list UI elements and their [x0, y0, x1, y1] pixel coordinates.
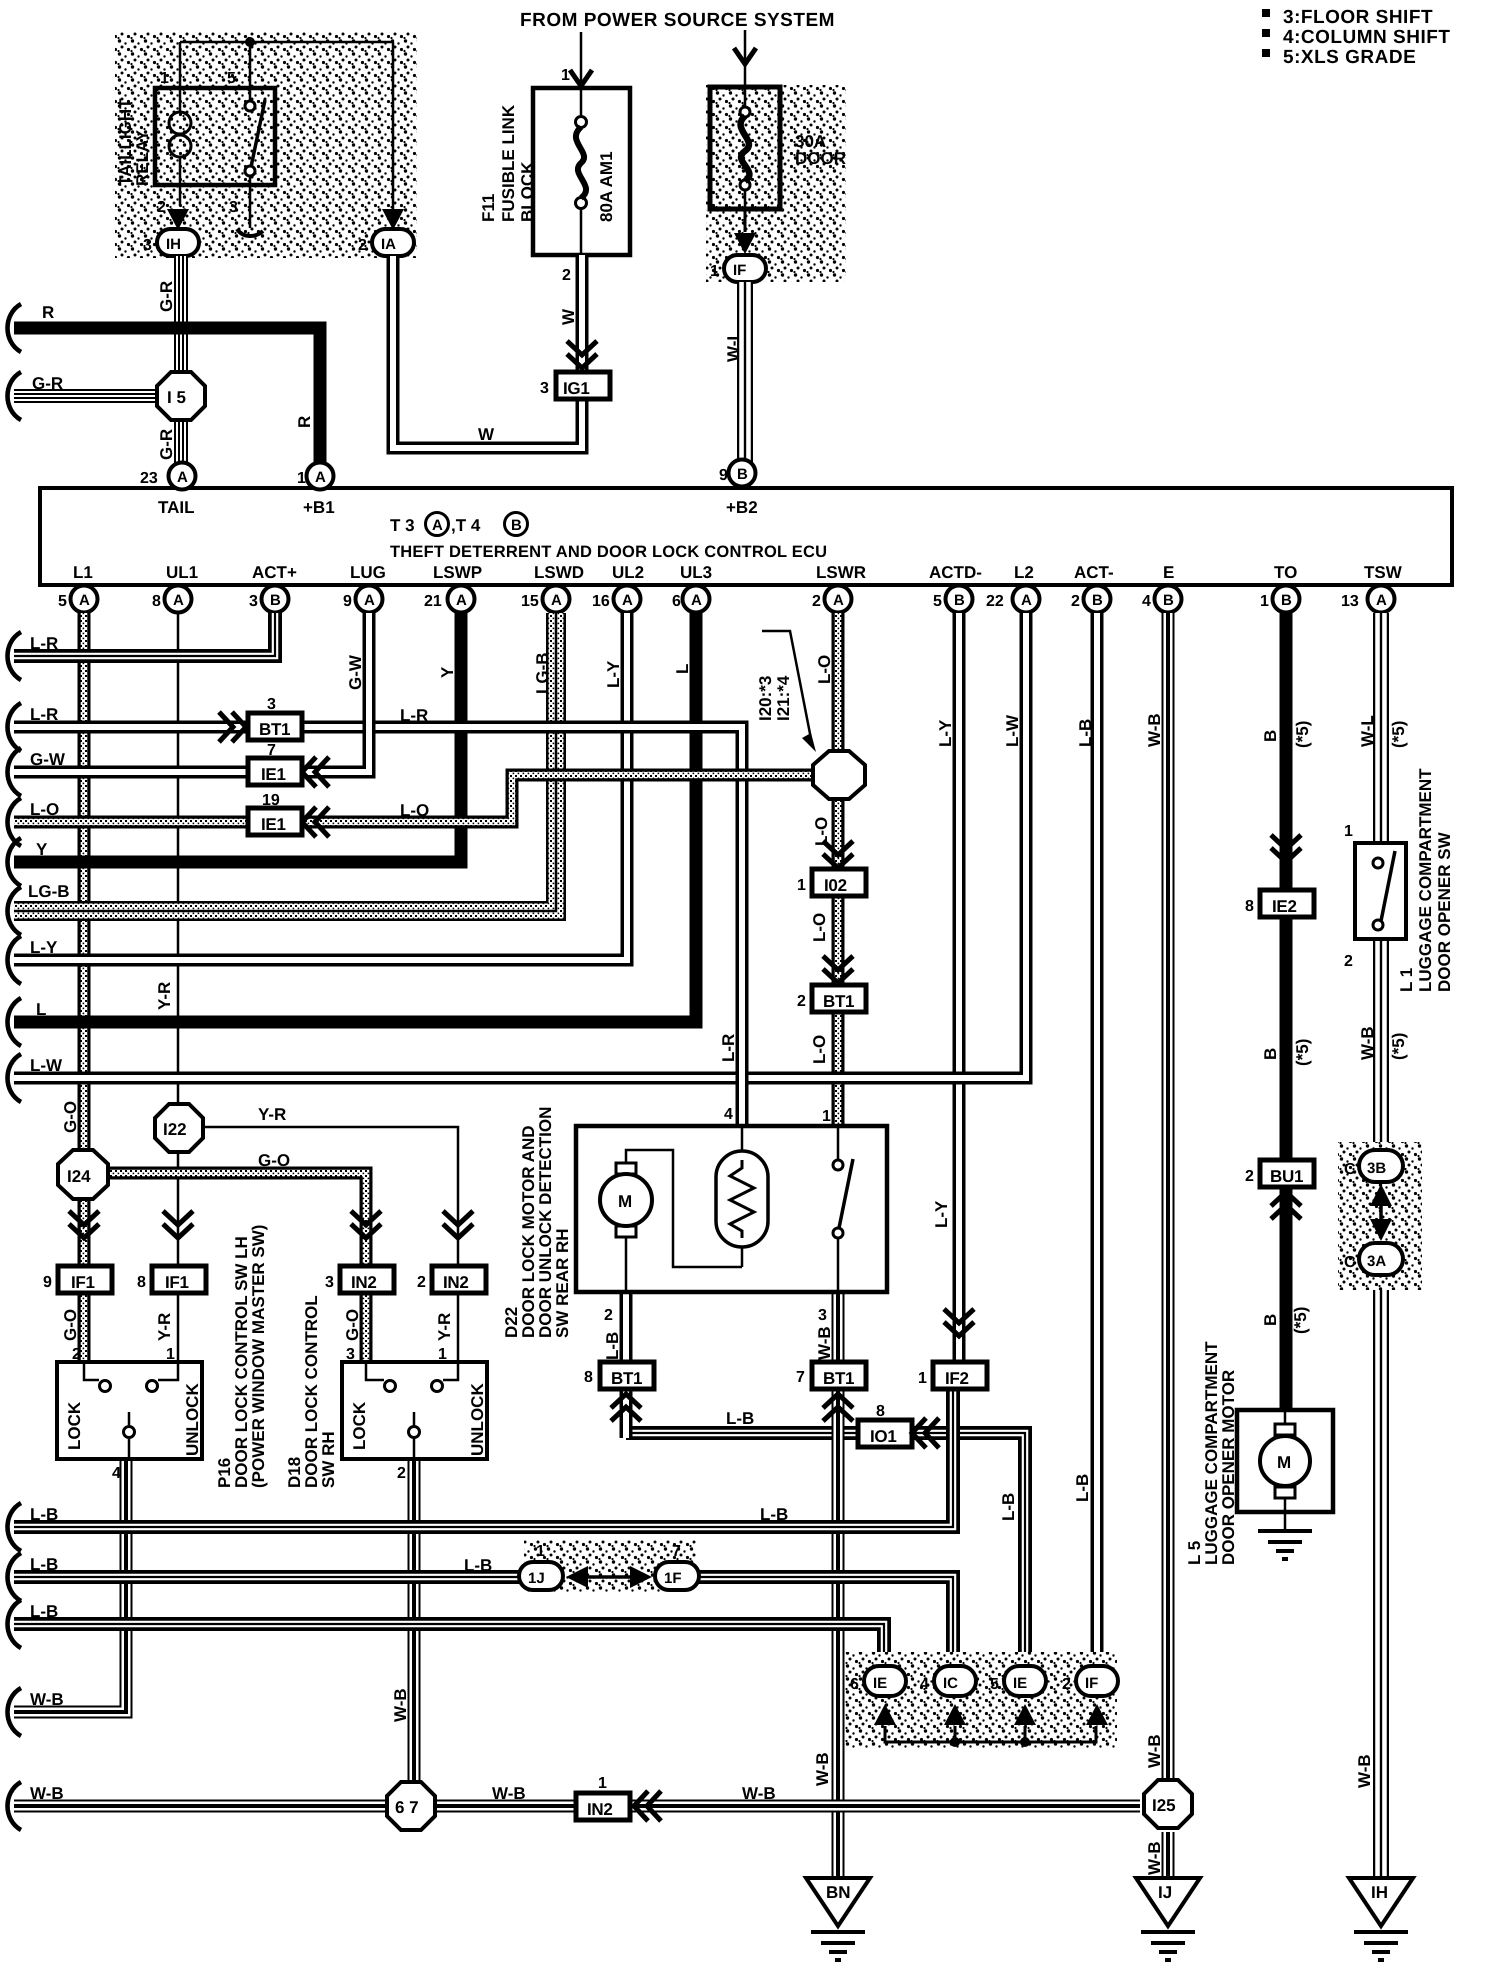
svg-text:L-B: L-B — [1073, 1474, 1092, 1502]
wire E W-B down to I25 — [1167, 613, 1169, 1780]
svg-text:W-L: W-L — [1358, 715, 1377, 747]
svg-text:3: 3 — [267, 696, 276, 713]
svg-text:M: M — [1277, 1453, 1291, 1472]
svg-text:TAIL: TAIL — [158, 498, 195, 517]
svg-text:ACTD-: ACTD- — [929, 563, 982, 582]
svg-text:7: 7 — [796, 1369, 805, 1386]
svg-text:4: 4 — [724, 1106, 733, 1123]
wire ACT- L-B down to 2 IF — [1096, 613, 1098, 1666]
svg-text:LUGGAGE COMPARTMENT: LUGGAGE COMPARTMENT — [1416, 768, 1435, 992]
wire UL2 L-Y corner to stub — [14, 613, 627, 960]
svg-text:L: L — [673, 664, 692, 674]
svg-text:G-R: G-R — [157, 429, 176, 460]
svg-text:B: B — [1261, 1314, 1280, 1326]
svg-text:IN2: IN2 — [351, 1273, 377, 1292]
svg-text:LSWR: LSWR — [816, 563, 866, 582]
svg-text:SW REAR RH: SW REAR RH — [553, 1228, 572, 1338]
svg-text:ACT+: ACT+ — [252, 563, 297, 582]
svg-text:Y-R: Y-R — [155, 1313, 174, 1341]
svg-text:IF: IF — [1085, 1675, 1098, 1692]
svg-text:1: 1 — [160, 70, 169, 87]
svg-text:L-R: L-R — [400, 706, 428, 725]
svg-text:7: 7 — [672, 1543, 681, 1560]
svg-text:I24: I24 — [67, 1167, 91, 1186]
svg-text:4: 4 — [1142, 593, 1151, 610]
junction octagon I22 — [155, 1104, 203, 1152]
relay switch contacts — [245, 101, 255, 111]
svg-text:3: 3 — [249, 593, 258, 610]
svg-text:BLOCK: BLOCK — [518, 161, 537, 222]
svg-text:80A AM1: 80A AM1 — [597, 151, 616, 222]
svg-text:L-O: L-O — [810, 1035, 829, 1064]
svg-text:W-B: W-B — [813, 1752, 832, 1786]
wire L2 L-W corner to stub — [14, 613, 1026, 1078]
svg-text:1: 1 — [710, 263, 719, 280]
svg-text:THEFT DETERRENT AND DOOR LOCK: THEFT DETERRENT AND DOOR LOCK CONTROL EC… — [390, 543, 827, 561]
svg-text:1: 1 — [918, 1370, 927, 1387]
svg-text:4: 4 — [920, 1676, 929, 1693]
switch P16 door lock control sw LH box — [57, 1362, 202, 1459]
svg-text:13: 13 — [1341, 593, 1359, 610]
svg-text:A: A — [1376, 592, 1387, 609]
svg-text:8: 8 — [137, 1274, 146, 1291]
svg-text:L-O: L-O — [30, 800, 59, 819]
fusible link block F11 box — [533, 88, 630, 255]
svg-text:L-B: L-B — [30, 1555, 58, 1574]
wire I22 right Y-R to IN2 — [202, 1127, 458, 1362]
wire relay pin3 lead — [249, 176, 252, 228]
svg-text:LSWD: LSWD — [534, 563, 584, 582]
bottom pin circles — [58, 586, 1395, 613]
luggage compartment door opener switch L1 — [1355, 843, 1406, 939]
wire relay coil leads — [179, 88, 182, 206]
svg-text:L-B: L-B — [726, 1409, 754, 1428]
svg-text:1: 1 — [797, 877, 806, 894]
wire TO B thick down to motor — [1280, 613, 1293, 1410]
svg-text:L-Y: L-Y — [936, 719, 955, 747]
svg-text:BT1: BT1 — [823, 1369, 854, 1388]
svg-text:1: 1 — [1344, 823, 1353, 840]
wire luggage switch to 3B to IH W-B — [1380, 939, 1382, 1878]
svg-text:2: 2 — [604, 1307, 613, 1324]
svg-text:B: B — [737, 466, 748, 483]
svg-text:L-Y: L-Y — [30, 938, 58, 957]
svg-text:A: A — [432, 517, 443, 534]
D22 unlock switch — [837, 1126, 840, 1292]
svg-text:IF1: IF1 — [71, 1273, 95, 1292]
svg-text:2: 2 — [358, 237, 367, 254]
svg-text:+B1: +B1 — [303, 498, 335, 517]
svg-text:UNLOCK: UNLOCK — [183, 1383, 202, 1456]
connector 4 IC — [934, 1666, 976, 1696]
wire D22 pin3 to 7BT1 to BN ground W-B — [837, 1292, 839, 1878]
connector 8 BT1 — [600, 1362, 654, 1389]
connector BT1 3 inline on L-R — [248, 713, 302, 740]
svg-text:Y-R: Y-R — [155, 982, 174, 1010]
svg-text:L: L — [36, 1000, 46, 1019]
svg-text:L-B: L-B — [999, 1493, 1018, 1521]
arrows between 3B and 3A — [1379, 1198, 1383, 1230]
svg-text:I 5: I 5 — [167, 388, 186, 407]
svg-text:W-B: W-B — [742, 1784, 776, 1803]
ground below luggage motor — [1258, 1531, 1312, 1559]
svg-text:4: 4 — [112, 1465, 121, 1482]
svg-text:(*5): (*5) — [1293, 1039, 1312, 1066]
svg-text:L2: L2 — [1014, 563, 1034, 582]
arrow into IH — [167, 209, 189, 230]
svg-text:21: 21 — [424, 593, 442, 610]
arrow chevron into BT1 2 — [823, 956, 853, 983]
wire W fuse to IG1 — [581, 255, 583, 372]
svg-text:TSW: TSW — [1364, 563, 1403, 582]
svg-text:I25: I25 — [1152, 1796, 1176, 1815]
svg-text:B: B — [954, 592, 965, 609]
connector 1 IF2 — [933, 1362, 987, 1389]
svg-text:W-B: W-B — [1145, 1841, 1164, 1875]
svg-text:SW RH: SW RH — [319, 1431, 338, 1488]
svg-text:C: C — [1344, 1254, 1356, 1271]
ground connector IJ — [1136, 1878, 1200, 1926]
svg-text:LOCK: LOCK — [350, 1401, 369, 1450]
wire G-R from IH through I5 to 23A — [180, 256, 182, 463]
svg-text:LUG: LUG — [350, 563, 386, 582]
svg-text:9: 9 — [43, 1274, 52, 1291]
svg-text:C: C — [1344, 1161, 1356, 1178]
svg-text:L-B: L-B — [464, 1556, 492, 1575]
svg-text:3B: 3B — [1367, 1160, 1386, 1177]
svg-text:I21:*4: I21:*4 — [774, 675, 793, 721]
ECU box theft deterrent and door lock control ECU — [40, 488, 1452, 585]
svg-text:TO: TO — [1274, 563, 1297, 582]
svg-text:W-B: W-B — [492, 1784, 526, 1803]
connector 1 IF — [724, 255, 766, 282]
arrow chevron into IE2 — [1271, 835, 1301, 862]
svg-text:UL2: UL2 — [612, 563, 644, 582]
connector C 3B — [1359, 1150, 1403, 1182]
svg-text:R: R — [42, 303, 54, 322]
svg-text:A: A — [177, 469, 188, 486]
wire LSWP Y thick corner to stub — [14, 613, 461, 862]
svg-text:22: 22 — [986, 593, 1004, 610]
svg-text:A: A — [691, 592, 702, 609]
relay pin numbers — [157, 70, 238, 216]
svg-text:G-W: G-W — [30, 750, 66, 769]
svg-text:G-O: G-O — [61, 1309, 80, 1341]
svg-text:6: 6 — [672, 593, 681, 610]
svg-text:W-B: W-B — [30, 1690, 64, 1709]
shaded area ground connector strip — [845, 1652, 1117, 1748]
wire to IF — [744, 209, 747, 232]
svg-text:Y-R: Y-R — [258, 1105, 286, 1124]
wire G-W run from stub to IE1 and LUG — [14, 613, 369, 772]
svg-text:1: 1 — [561, 67, 570, 84]
svg-text:2: 2 — [797, 993, 806, 1010]
svg-text:IE: IE — [1013, 1675, 1027, 1692]
svg-text:L-R: L-R — [30, 634, 58, 653]
svg-text:3: 3 — [540, 380, 549, 397]
wire G-R stub from left — [14, 395, 157, 397]
node junction top — [245, 37, 255, 47]
svg-text:L-B: L-B — [1076, 719, 1095, 747]
svg-text:T 3: T 3 — [390, 516, 415, 535]
switch D18 door lock control sw RH box — [342, 1362, 487, 1459]
svg-text:L-B: L-B — [30, 1602, 58, 1621]
arrow chevron into IF1 9 — [69, 1211, 99, 1238]
svg-text:A: A — [79, 592, 90, 609]
wire 8BT1 to IO1 to 5IE L-B — [626, 1433, 1025, 1668]
relay box — [155, 88, 275, 185]
svg-text:2: 2 — [812, 593, 821, 610]
svg-text:1: 1 — [536, 1543, 545, 1560]
svg-text:9: 9 — [719, 467, 728, 484]
wire R thick stub to 1A — [14, 328, 320, 463]
svg-text:9: 9 — [343, 593, 352, 610]
wire L1 G-O down to I24 — [83, 613, 85, 1150]
svg-text:B: B — [1281, 592, 1292, 609]
svg-text:IF: IF — [733, 262, 746, 279]
svg-text:L-B: L-B — [30, 1505, 58, 1524]
svg-text:,T 4: ,T 4 — [451, 516, 481, 535]
svg-text:5: 5 — [990, 1676, 999, 1693]
svg-text:IH: IH — [1371, 1883, 1388, 1902]
connector 2 BT1 — [812, 985, 866, 1012]
connector IE1 7 inline — [248, 758, 302, 785]
arrow chevron into IN2 3 — [351, 1211, 381, 1238]
svg-text:L-R: L-R — [30, 705, 58, 724]
svg-text:A: A — [456, 592, 467, 609]
connector 2 IA — [372, 229, 414, 256]
svg-text:G-W: G-W — [346, 654, 365, 690]
svg-text:LG-B: LG-B — [28, 882, 70, 901]
svg-text:B: B — [1092, 592, 1103, 609]
svg-text:DOOR OPENER SW: DOOR OPENER SW — [1435, 831, 1454, 992]
connector 9 IF1 — [58, 1266, 112, 1293]
wire LSWR L-O chain down to D22 pin1 — [837, 613, 839, 1126]
svg-text:Y: Y — [438, 666, 457, 678]
svg-text:BU1: BU1 — [1270, 1167, 1303, 1186]
svg-text:IJ: IJ — [1158, 1883, 1172, 1902]
svg-text:I20:*3: I20:*3 — [756, 676, 775, 721]
svg-text:L-O: L-O — [810, 913, 829, 942]
wire TSW W-L down to luggage switch — [1380, 613, 1382, 843]
arrow between 1J and 1F — [570, 1575, 648, 1579]
fusible link 80A AM1 — [580, 100, 583, 255]
arrow up into 2 IF — [1086, 1704, 1108, 1725]
svg-text:A: A — [833, 592, 844, 609]
svg-text:G-R: G-R — [32, 374, 63, 393]
svg-text:E: E — [1163, 563, 1174, 582]
svg-text:2: 2 — [562, 267, 571, 284]
svg-text:FROM POWER SOURCE SYSTEM: FROM POWER SOURCE SYSTEM — [520, 10, 835, 31]
ground connector BN — [806, 1878, 870, 1926]
svg-text:5: 5 — [58, 593, 67, 610]
junction octagon 6 7 — [387, 1782, 435, 1830]
svg-text:W-B: W-B — [391, 1688, 410, 1722]
junction octagon I20 I21 — [813, 751, 865, 799]
svg-text:IN2: IN2 — [587, 1800, 613, 1819]
wire W-L from IF to +B2 — [744, 282, 746, 462]
wire UL3 L thick corner to stub — [14, 613, 696, 1022]
svg-text:LOCK: LOCK — [65, 1401, 84, 1450]
svg-text:W-B: W-B — [1358, 1026, 1377, 1060]
connector IE1 19 inline — [248, 808, 302, 835]
svg-text:DOOR OPENER MOTOR: DOOR OPENER MOTOR — [1219, 1370, 1238, 1565]
wire L-R run through BT1 to D22 pin4 — [14, 727, 742, 1126]
svg-text:(*5): (*5) — [1389, 1033, 1408, 1060]
D22 motor M — [626, 1150, 742, 1292]
svg-text:+B2: +B2 — [726, 498, 758, 517]
shaded area 1J 1F — [524, 1540, 696, 1592]
terminal name labels — [73, 563, 1403, 582]
svg-text:5:XLS GRADE: 5:XLS GRADE — [1283, 47, 1416, 68]
pin 1 A +B1 — [307, 463, 334, 490]
svg-text:Y: Y — [36, 840, 48, 859]
svg-text:W-B: W-B — [1145, 713, 1164, 747]
svg-text:W: W — [559, 308, 578, 325]
connector 2 BU1 — [1260, 1160, 1314, 1187]
connector C 3A — [1359, 1243, 1403, 1275]
arrow up into 6 IE — [874, 1704, 896, 1725]
svg-text:3: 3 — [325, 1274, 334, 1291]
connector 7 1F — [655, 1562, 699, 1590]
luggage compartment door opener motor L5 — [1237, 1410, 1333, 1512]
svg-text:IE: IE — [873, 1675, 887, 1692]
fuse 30A DOOR box — [710, 87, 780, 209]
svg-text:IG1: IG1 — [563, 379, 590, 398]
svg-text:B: B — [1261, 730, 1280, 742]
wire I25 to IJ ground W-B — [1167, 1832, 1169, 1878]
svg-text:6 7: 6 7 — [395, 1798, 419, 1817]
connector 3 IH — [157, 229, 199, 256]
svg-text:8: 8 — [584, 1369, 593, 1386]
svg-text:L-Y: L-Y — [604, 660, 623, 688]
svg-text:L-O: L-O — [812, 817, 831, 846]
svg-text:(*5): (*5) — [1293, 721, 1312, 748]
svg-text:IA: IA — [381, 236, 396, 253]
svg-text:FUSIBLE LINK: FUSIBLE LINK — [499, 104, 518, 222]
svg-text:3: 3 — [818, 1307, 827, 1324]
wire IF2 down to L-B stub run — [14, 1390, 953, 1527]
svg-text:L-B: L-B — [603, 1332, 622, 1360]
svg-text:A: A — [1021, 592, 1032, 609]
svg-text:8: 8 — [876, 1403, 885, 1420]
svg-text:B: B — [1163, 592, 1174, 609]
svg-text:A: A — [315, 469, 326, 486]
D22 door lock motor box — [576, 1126, 887, 1292]
svg-text:(*5): (*5) — [1389, 721, 1408, 748]
svg-text:2: 2 — [417, 1274, 426, 1291]
svg-text:UL3: UL3 — [680, 563, 712, 582]
svg-text:IC: IC — [943, 1675, 958, 1692]
svg-text:W-B: W-B — [815, 1326, 834, 1360]
pin 23 A TAIL — [169, 463, 196, 490]
wire D18 pole down to octagon 67 — [413, 1459, 415, 1782]
arrow up into 4 IC — [944, 1704, 966, 1725]
svg-text:3:FLOOR SHIFT: 3:FLOOR SHIFT — [1283, 7, 1433, 28]
svg-text:L-O: L-O — [815, 655, 834, 684]
svg-text:IO1: IO1 — [870, 1427, 897, 1446]
wire relay top bus — [180, 42, 393, 218]
wire L-B stub 2 through 1J 1F to 4 IC — [14, 1577, 953, 1668]
svg-text:RELAY: RELAY — [133, 129, 152, 186]
svg-text:L-R: L-R — [719, 1034, 738, 1062]
svg-text:3: 3 — [229, 199, 238, 216]
svg-text:1F: 1F — [664, 1570, 682, 1587]
svg-text:IN2: IN2 — [443, 1273, 469, 1292]
svg-text:(POWER WINDOW MASTER SW): (POWER WINDOW MASTER SW) — [249, 1225, 268, 1488]
svg-text:IF1: IF1 — [165, 1273, 189, 1292]
svg-text:M: M — [618, 1192, 632, 1211]
arrow chevron into IN2 2 — [443, 1211, 473, 1238]
svg-text:W-B: W-B — [30, 1784, 64, 1803]
svg-text:W-B: W-B — [1355, 1754, 1374, 1788]
legend note — [1262, 7, 1450, 68]
svg-text:2: 2 — [157, 199, 166, 216]
svg-text:F11: F11 — [479, 194, 498, 222]
pin 9 B +B2 — [729, 460, 756, 487]
svg-text:1J: 1J — [528, 1570, 545, 1587]
svg-text:I22: I22 — [163, 1120, 187, 1139]
wire I22 to IF1 Y-R — [177, 1151, 180, 1362]
connector 2 IF — [1076, 1666, 1118, 1696]
svg-text:2: 2 — [1062, 1676, 1071, 1693]
connector 7 BT1 — [812, 1362, 866, 1389]
svg-text:8: 8 — [152, 593, 161, 610]
connector 1 I02 — [812, 869, 866, 896]
connector 8 IF1 — [152, 1266, 206, 1293]
svg-text:I02: I02 — [824, 876, 847, 895]
30A door fuse drop — [744, 30, 747, 100]
svg-text:A: A — [364, 592, 375, 609]
wire drop from power source — [580, 32, 583, 100]
svg-text:ACT-: ACT- — [1074, 563, 1114, 582]
svg-text:3: 3 — [143, 237, 152, 254]
svg-text:B: B — [270, 592, 281, 609]
svg-text:IF2: IF2 — [945, 1369, 969, 1388]
wire I24 right G-O to IN2 — [107, 1173, 366, 1362]
svg-text:BT1: BT1 — [611, 1369, 642, 1388]
svg-text:IH: IH — [166, 236, 181, 253]
connector 1 1J — [519, 1562, 563, 1590]
svg-text:1: 1 — [1260, 593, 1269, 610]
svg-text:W-B: W-B — [1145, 1734, 1164, 1768]
svg-text:IE1: IE1 — [261, 765, 286, 784]
svg-text:B: B — [511, 517, 522, 534]
svg-text:2: 2 — [1071, 593, 1080, 610]
arrow into IA — [382, 209, 404, 230]
junction octagon I24 — [58, 1150, 108, 1199]
svg-text:LG-B: LG-B — [533, 652, 552, 694]
svg-text:UNLOCK: UNLOCK — [468, 1383, 487, 1456]
svg-text:G-O: G-O — [61, 1101, 80, 1133]
svg-text:L-W: L-W — [1003, 714, 1022, 747]
svg-text:UL1: UL1 — [166, 563, 198, 582]
svg-text:L-W: L-W — [30, 1056, 63, 1075]
wire ACT+ L-R corner to stub — [14, 613, 275, 656]
connector 2 IN2 — [432, 1266, 486, 1293]
svg-text:23: 23 — [140, 470, 158, 487]
svg-text:4:COLUMN SHIFT: 4:COLUMN SHIFT — [1283, 27, 1450, 48]
wire D22 pin2 to 8BT1 L-B — [625, 1292, 627, 1438]
svg-text:15: 15 — [521, 593, 539, 610]
svg-text:5: 5 — [933, 593, 942, 610]
svg-text:3A: 3A — [1367, 1253, 1386, 1270]
svg-text:IE2: IE2 — [1272, 897, 1297, 916]
svg-text:A: A — [173, 592, 184, 609]
svg-text:B: B — [1261, 1048, 1280, 1060]
connector 6 IE — [864, 1666, 906, 1696]
svg-text:Y-R: Y-R — [435, 1313, 454, 1341]
